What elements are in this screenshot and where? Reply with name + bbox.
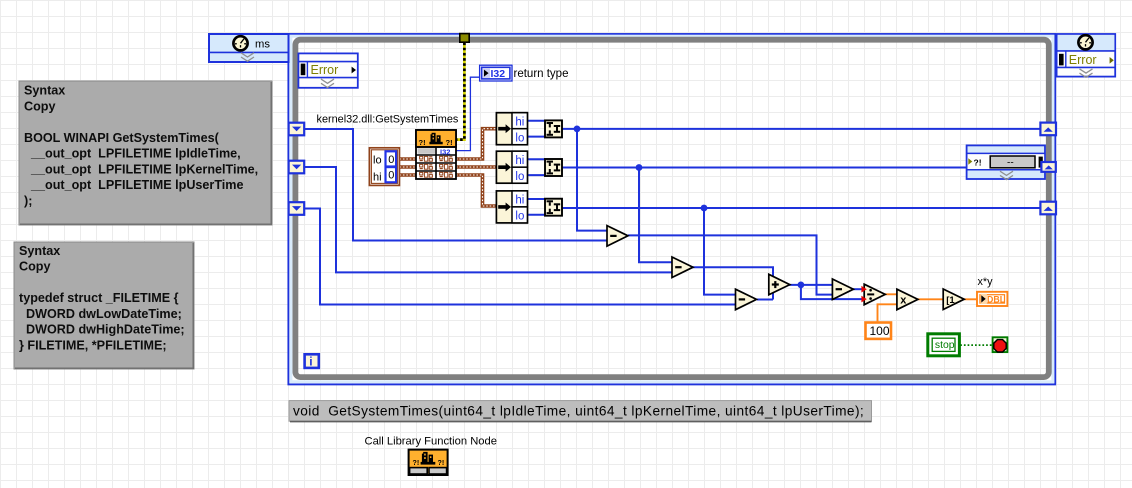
selected text label void GetSystemTimes(...)	[289, 401, 872, 422]
svg-text:0: 0	[388, 154, 394, 166]
svg-text:?!: ?!	[419, 138, 426, 147]
cluster wire CLFN out1 to split1	[456, 129, 497, 159]
output tunnel idle	[1040, 123, 1056, 136]
join numbers node 2	[545, 159, 562, 176]
numeric constant 100	[866, 323, 892, 339]
boolean control stop	[928, 334, 960, 356]
call library function node icon (palette)	[409, 450, 448, 475]
call library function node kernel32.dll:GetSystemTimes	[416, 130, 456, 179]
wire tunnel3 to subtract3 lower input	[304, 209, 737, 305]
svg-text:?!: ?!	[974, 158, 982, 168]
wire split3 lo to join3	[527, 214, 545, 216]
svg-text:Copy: Copy	[19, 260, 50, 274]
indicator I32 return type	[480, 65, 512, 81]
svg-text:?!: ?!	[446, 138, 453, 147]
timed loop left input node (ms period)	[209, 34, 289, 62]
svg-text:0: 0	[388, 170, 394, 182]
svg-text:Error: Error	[311, 63, 339, 77]
wire subtract4 out to divide upper input	[853, 288, 865, 290]
wire stop to loop condition	[960, 344, 992, 346]
wire round out to DBL indicator	[964, 298, 977, 300]
wire constant 100 to multiply lower input	[878, 304, 898, 321]
svg-text:DWORD dwHighDateTime;: DWORD dwHighDateTime;	[19, 323, 185, 337]
svg-text:Error: Error	[1069, 53, 1097, 67]
cluster constant FILETIME lo/hi = 0	[369, 148, 399, 186]
timed loop light blue band	[291, 36, 1053, 382]
svg-text:hi: hi	[515, 116, 524, 128]
svg-text:I32: I32	[491, 68, 506, 80]
wire split2 lo to join2	[527, 174, 545, 176]
svg-text:i: i	[309, 355, 312, 369]
comment box 2 FILETIME struct	[14, 242, 194, 369]
wire split2 hi to join2	[527, 158, 545, 160]
output tunnel kernel (on right border)	[1041, 162, 1055, 172]
wire add out to subtract4 upper input	[789, 284, 833, 286]
split node 1 (FILETIME idle)	[496, 113, 527, 145]
svg-text:__out_opt LPFILETIME lpIdleTi: __out_opt LPFILETIME lpIdleTime,	[24, 147, 241, 161]
svg-text:lo: lo	[515, 132, 524, 144]
timed loop outer blue border	[288, 34, 1055, 384]
svg-text:ms: ms	[255, 39, 270, 51]
junction dot idle wire	[574, 125, 581, 132]
wire I32 return value	[456, 77, 480, 150]
output tunnel user	[1040, 202, 1056, 215]
svg-text:[1: [1	[946, 295, 955, 306]
svg-text:Call Library Function Node: Call Library Function Node	[365, 436, 497, 448]
svg-text:lo: lo	[515, 211, 524, 223]
comment box 1 GetSystemTimes syntax	[19, 81, 272, 225]
svg-text:kernel32.dll:GetSystemTimes: kernel32.dll:GetSystemTimes	[317, 114, 459, 126]
svg-text:lo: lo	[515, 171, 524, 183]
svg-text:?!: ?!	[438, 459, 445, 467]
svg-text:} FILETIME, *PFILETIME;: } FILETIME, *PFILETIME;	[19, 338, 167, 352]
cluster wire constant to CLFN in3	[400, 173, 417, 177]
cluster wire constant to CLFN in2	[400, 165, 417, 169]
svg-text:?!: ?!	[413, 459, 420, 467]
junction dot user wire	[701, 205, 708, 212]
svg-text:__out_opt LPFILETIME lpKernel: __out_opt LPFILETIME lpKernelTime,	[24, 162, 258, 176]
join numbers node 1	[545, 120, 562, 137]
junction dot kernel wire	[636, 164, 643, 171]
wire split1 hi to join1	[527, 120, 545, 122]
add node	[769, 274, 790, 295]
svg-text:__out_opt LPFILETIME lpUserTi: __out_opt LPFILETIME lpUserTime	[24, 178, 244, 192]
coercion dot divide upper input	[861, 286, 866, 293]
divide node	[864, 284, 885, 305]
wire multiply out to round node	[917, 298, 945, 300]
wire tunnel1 to subtract1 lower input	[304, 129, 608, 241]
svg-text:Copy: Copy	[24, 99, 55, 113]
wire subtract2 out to add upper input	[693, 267, 774, 299]
svg-text:typedef struct _FILETIME {: typedef struct _FILETIME {	[19, 291, 179, 305]
svg-text:--: --	[1007, 157, 1014, 168]
input tunnel lpUserTime	[289, 202, 305, 215]
input tunnel lpKernelTime	[289, 161, 305, 174]
wire tunnel2 to subtract2 lower input	[304, 167, 673, 272]
svg-text:lo: lo	[373, 155, 382, 167]
svg-text:Syntax: Syntax	[24, 84, 65, 98]
svg-text:I32: I32	[440, 147, 450, 156]
loop condition terminal (stop sign)	[993, 337, 1008, 352]
subtract node 4 (busy time)	[832, 279, 853, 300]
svg-text:x*y: x*y	[978, 276, 994, 288]
subtract node 3 (user delta)	[736, 289, 757, 310]
wire join3 user time to right tunnel	[562, 207, 1041, 209]
timed loop right output node	[1057, 34, 1116, 77]
multiply node	[897, 289, 918, 310]
wire join2 kernel time to right node	[562, 167, 967, 169]
coercion dot divide lower input	[861, 296, 866, 303]
svg-text:hi: hi	[515, 195, 524, 207]
wire branch kernel to subtract2 upper input	[639, 168, 673, 263]
wire split1 lo to join1	[527, 136, 545, 138]
svg-text:);: );	[24, 194, 32, 208]
svg-text:BOOL WINAPI GetSystemTimes(: BOOL WINAPI GetSystemTimes(	[24, 131, 220, 145]
svg-text:x: x	[900, 294, 907, 306]
error wire (dashed) from tunnel to CLFN	[456, 43, 464, 140]
svg-text:DWORD dwLowDateTime;: DWORD dwLowDateTime;	[19, 307, 182, 321]
junction dot add output	[798, 282, 805, 289]
svg-text:stop: stop	[935, 340, 955, 351]
error tunnel on top border	[460, 34, 469, 43]
indicator x*y (DBL)	[977, 292, 1007, 306]
split node 3 (FILETIME user)	[496, 191, 527, 223]
timed loop left error node	[298, 53, 357, 87]
wire join1 idle time to right tunnel	[562, 128, 1041, 130]
subtract node 2 (kernel delta)	[672, 257, 693, 278]
timed loop right internal node (error display)	[967, 145, 1045, 179]
timed loop gray band	[295, 40, 1048, 377]
join numbers node 3	[545, 199, 562, 216]
svg-text:hi: hi	[515, 155, 524, 167]
svg-text:100: 100	[870, 324, 890, 338]
cluster wire CLFN out2 to split2	[456, 165, 497, 169]
wire branch user to subtract3 upper input	[704, 208, 737, 295]
svg-text:Syntax: Syntax	[19, 244, 60, 258]
svg-text:return type: return type	[514, 68, 569, 80]
iteration terminal i	[305, 354, 319, 368]
wire subtract3 out to add lower input	[757, 299, 773, 301]
svg-text:DBL: DBL	[987, 295, 1006, 305]
split node 2 (FILETIME kernel)	[496, 151, 527, 183]
svg-text:void GetSystemTimes(uint64_t: void GetSystemTimes(uint64_t lpIdleTime,…	[293, 404, 864, 419]
svg-text:hi: hi	[373, 172, 382, 184]
wire branch add out to divide lower input	[801, 285, 865, 299]
wire split3 hi to join3	[527, 198, 545, 200]
round/convert node	[943, 289, 964, 310]
wire subtract1 out to subtract4 lower input	[628, 235, 833, 294]
cluster wire constant to CLFN in1	[400, 157, 417, 161]
cluster wire CLFN out3 to split3	[456, 175, 497, 206]
wire divide out to multiply	[885, 293, 898, 295]
wire branch idle to subtract1 upper input	[577, 129, 608, 231]
input tunnel lpIdleTime	[289, 123, 305, 136]
subtract node 1 (idle delta)	[607, 226, 628, 247]
